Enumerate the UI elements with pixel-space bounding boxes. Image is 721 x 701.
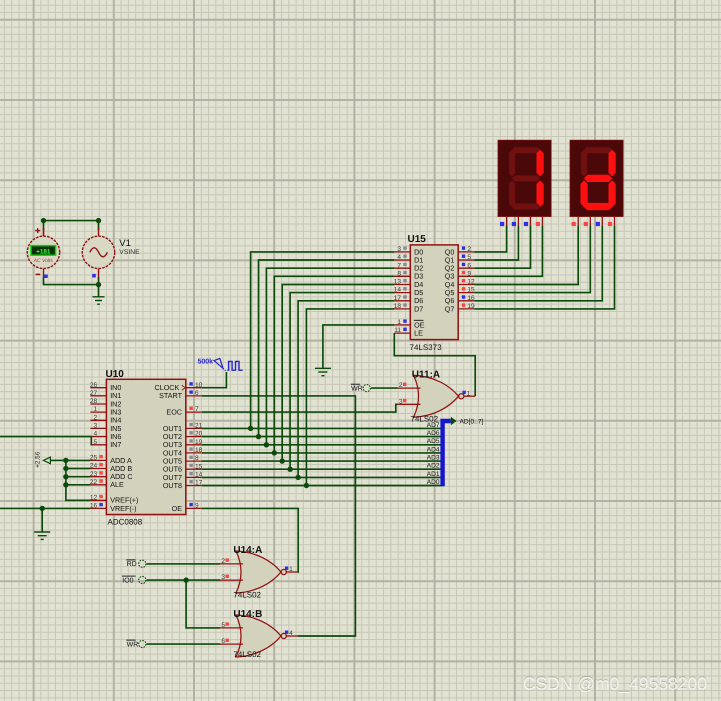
svg-text:25: 25 bbox=[90, 455, 98, 462]
U15 pin Q2 (pin 6) bbox=[458, 267, 474, 269]
wire OUT2 to bus (AD6) bbox=[202, 436, 443, 438]
svg-text:U10: U10 bbox=[106, 369, 125, 380]
svg-text:74LS02: 74LS02 bbox=[233, 590, 261, 599]
svg-text:20: 20 bbox=[195, 431, 203, 438]
DISP2 pin 4 bbox=[614, 216, 616, 225]
wire OUT6 to bus (AD2) bbox=[202, 468, 443, 470]
svg-text:AD6: AD6 bbox=[427, 430, 440, 437]
U10 pin OUT5 (pin 8) bbox=[186, 460, 202, 462]
svg-text:16: 16 bbox=[467, 295, 475, 302]
wire WR to U11:A in2 bbox=[371, 387, 398, 389]
svg-text:3: 3 bbox=[397, 246, 401, 253]
svg-text:IN7: IN7 bbox=[110, 440, 121, 449]
svg-text:AD[0..7]: AD[0..7] bbox=[460, 419, 484, 426]
svg-text:OE: OE bbox=[172, 504, 183, 513]
svg-text:9: 9 bbox=[195, 503, 199, 510]
svg-text:19: 19 bbox=[467, 303, 475, 310]
wire OUT1 to bus (AD7) bbox=[202, 427, 443, 429]
wire D1 riser to OUT2 bbox=[259, 260, 395, 437]
svg-text:5: 5 bbox=[94, 439, 98, 446]
wire bottom loop bbox=[44, 277, 99, 285]
svg-text:D7: D7 bbox=[414, 304, 423, 313]
node rail junction bbox=[63, 458, 68, 463]
svg-text:3: 3 bbox=[221, 574, 225, 581]
wire Q6 to display pin bbox=[474, 225, 602, 301]
wire Q2 to display pin bbox=[474, 225, 530, 268]
U10 pin OE (pin 9) bbox=[186, 507, 202, 509]
terminal WR (bottom) bbox=[126, 640, 146, 648]
svg-text:10: 10 bbox=[195, 382, 203, 389]
svg-text:U14:B: U14:B bbox=[233, 609, 262, 620]
svg-text:U15: U15 bbox=[408, 234, 427, 245]
U15 pin Q5 (pin 15) bbox=[458, 292, 474, 294]
U15 pin LE (pin 11) bbox=[394, 332, 410, 334]
ground (V1) bbox=[93, 297, 105, 304]
node IO0 branch bbox=[183, 577, 188, 582]
node V1 bottom junction bbox=[96, 282, 101, 287]
svg-text:AC Volts: AC Volts bbox=[33, 258, 54, 264]
U10 pin IN1 (pin 27) bbox=[90, 395, 106, 397]
svg-text:17: 17 bbox=[394, 295, 402, 302]
svg-text:2: 2 bbox=[94, 414, 98, 421]
source V1 VSINE bbox=[82, 236, 114, 268]
U15 pin Q7 (pin 19) bbox=[458, 308, 474, 310]
svg-text:3: 3 bbox=[94, 423, 98, 430]
wire rail to ADD B bbox=[66, 468, 91, 470]
wire down to ground bbox=[41, 508, 43, 531]
U10 pin IN4 (pin 2) bbox=[90, 419, 106, 421]
svg-text:1: 1 bbox=[397, 319, 401, 326]
svg-text:13: 13 bbox=[394, 279, 402, 286]
svg-text:24: 24 bbox=[90, 463, 98, 470]
svg-text:6: 6 bbox=[221, 638, 225, 645]
wire EOC to U11:A in3 bbox=[202, 404, 398, 412]
svg-text:18: 18 bbox=[394, 303, 402, 310]
wire START to U14:B output bbox=[202, 396, 356, 636]
svg-text:1: 1 bbox=[289, 566, 293, 573]
U10 pin OUT6 (pin 15) bbox=[186, 468, 202, 470]
svg-text:6: 6 bbox=[467, 262, 471, 269]
U15 pin Q3 (pin 9) bbox=[458, 275, 474, 277]
wire OUT7 to bus (AD1) bbox=[202, 476, 443, 478]
node riser D7/OUT8 bbox=[304, 483, 309, 488]
svg-text:14: 14 bbox=[394, 287, 402, 294]
node VREF(-) ground tap bbox=[40, 506, 45, 511]
U10 pin OUT3 (pin 19) bbox=[186, 444, 202, 446]
wire OUT3 to bus (AD5) bbox=[202, 444, 443, 446]
U10 pin OUT2 (pin 20) bbox=[186, 436, 202, 438]
U15 pin D3 (pin 8) bbox=[394, 275, 410, 277]
svg-text:2: 2 bbox=[467, 246, 471, 253]
svg-text:VSINE: VSINE bbox=[119, 249, 140, 256]
svg-text:5: 5 bbox=[467, 254, 471, 261]
U10 pin ALE (pin 22) bbox=[90, 484, 106, 486]
svg-text:8: 8 bbox=[397, 270, 401, 277]
wire Q4 to display pin bbox=[474, 225, 578, 284]
svg-text:11: 11 bbox=[394, 327, 401, 334]
node V1 top corner bbox=[96, 218, 101, 223]
svg-text:ADC0808: ADC0808 bbox=[108, 518, 143, 527]
wire D4 riser to OUT5 bbox=[282, 285, 394, 462]
U10 pin IN0 (pin 26) bbox=[90, 387, 106, 389]
wire IO0 branch to U14:B in5 bbox=[186, 580, 220, 628]
nor gate U14:A 74LS02 bbox=[220, 545, 298, 600]
svg-text:CSDN @m0_49558200: CSDN @m0_49558200 bbox=[523, 673, 707, 693]
ADC U10 ADC0808 bbox=[90, 369, 203, 527]
svg-text:U11:A: U11:A bbox=[412, 370, 440, 381]
svg-text:AD5: AD5 bbox=[427, 438, 440, 445]
wire Q0 to display pin bbox=[474, 225, 506, 252]
U10 pin START (pin 6) bbox=[186, 395, 202, 397]
U10 pin IN3 (pin 1) bbox=[90, 411, 106, 413]
node rail junction bbox=[63, 474, 68, 479]
wire D2 riser to OUT3 bbox=[266, 268, 394, 445]
svg-text:15: 15 bbox=[195, 463, 203, 470]
U10 pin IN6 (pin 4) bbox=[90, 436, 106, 438]
wire IO0 to U14:A in3 bbox=[146, 579, 220, 581]
wire D0 riser to OUT1 bbox=[251, 252, 395, 429]
DISP2 pin 1 bbox=[577, 216, 579, 225]
wire VREF(-) rail bbox=[0, 507, 90, 509]
svg-text:23: 23 bbox=[90, 471, 98, 478]
U10 pin ADD C (pin 23) bbox=[90, 476, 106, 478]
U15 pin D5 (pin 14) bbox=[394, 292, 410, 294]
svg-text:RD: RD bbox=[127, 561, 137, 568]
svg-text:4: 4 bbox=[397, 254, 401, 261]
svg-text:7: 7 bbox=[397, 262, 401, 269]
svg-text:16: 16 bbox=[90, 503, 98, 510]
wire U15 LE bbox=[393, 332, 395, 334]
svg-text:27: 27 bbox=[90, 390, 98, 397]
U15 pin OE (pin 1) bbox=[394, 324, 410, 326]
wire Q3 to display pin bbox=[474, 225, 542, 276]
wire U15 OE to ground bbox=[323, 325, 394, 368]
DISP2 pin 3 bbox=[601, 216, 603, 225]
wire OUT5 to bus (AD3) bbox=[202, 460, 443, 462]
U15 pin D2 (pin 7) bbox=[394, 267, 410, 269]
wire top loop between voltmeter and V1 bbox=[44, 221, 99, 230]
terminal WR (top) bbox=[351, 384, 371, 392]
U10 pin ADD A (pin 25) bbox=[90, 459, 106, 461]
svg-text:AD3: AD3 bbox=[427, 455, 440, 462]
svg-text:START: START bbox=[159, 391, 183, 400]
svg-text:3: 3 bbox=[399, 398, 403, 405]
svg-text:+181: +181 bbox=[36, 248, 51, 255]
wire WR to U14:B in6 bbox=[146, 643, 220, 645]
U10 pin IN5 (pin 3) bbox=[90, 427, 106, 429]
wire voltmeter + stub bbox=[43, 228, 45, 235]
svg-text:IO0: IO0 bbox=[122, 577, 133, 584]
wire D7 riser to OUT8 bbox=[306, 309, 394, 486]
svg-text:74LS02: 74LS02 bbox=[233, 650, 261, 659]
node riser D3/OUT4 bbox=[272, 450, 277, 455]
node rail junction bbox=[63, 482, 68, 487]
wire Q7 to display pin bbox=[474, 225, 614, 309]
node riser D4/OUT5 bbox=[280, 458, 285, 463]
svg-text:1: 1 bbox=[94, 406, 98, 413]
probe marker voltmeter bbox=[44, 274, 48, 278]
node riser D1/OUT2 bbox=[256, 434, 261, 439]
node rail junction bbox=[63, 466, 68, 471]
svg-text:18: 18 bbox=[195, 447, 203, 454]
node riser D5/OUT6 bbox=[287, 467, 292, 472]
svg-text:2: 2 bbox=[221, 558, 225, 565]
wire D6 riser to OUT7 bbox=[298, 301, 394, 478]
7-segment display DISP1 bbox=[498, 140, 551, 226]
U10 pin ADD B (pin 24) bbox=[90, 468, 106, 470]
U15 pin Q0 (pin 2) bbox=[458, 251, 474, 253]
wire OUT8 to bus (AD0) bbox=[202, 485, 443, 487]
svg-text:LE: LE bbox=[414, 329, 423, 338]
svg-text:500k: 500k bbox=[198, 357, 214, 365]
svg-text:12: 12 bbox=[90, 494, 98, 501]
terminal RD bbox=[126, 560, 146, 568]
U10 pin OUT1 (pin 21) bbox=[186, 427, 202, 429]
DISP1 pin 4 bbox=[541, 216, 543, 225]
svg-text:7: 7 bbox=[195, 406, 199, 413]
U15 pin D6 (pin 17) bbox=[394, 300, 410, 302]
svg-text:V1: V1 bbox=[119, 238, 131, 249]
svg-text:OUT8: OUT8 bbox=[163, 481, 182, 490]
svg-text:AD1: AD1 bbox=[427, 471, 440, 478]
svg-text:22: 22 bbox=[90, 479, 98, 486]
U15 pin Q4 (pin 12) bbox=[458, 284, 474, 286]
nor gate U14:B 74LS02 bbox=[220, 609, 298, 659]
svg-text:AD2: AD2 bbox=[427, 463, 440, 470]
U10 pin VREF(-) (pin 16) bbox=[90, 507, 106, 509]
svg-text:19: 19 bbox=[195, 439, 203, 446]
latch U15 74LS373 bbox=[394, 234, 475, 352]
svg-text:5: 5 bbox=[221, 622, 225, 629]
wire rail to ADD C bbox=[66, 476, 91, 478]
7-segment display DISP2 bbox=[570, 140, 623, 226]
svg-text:AD0: AD0 bbox=[427, 479, 440, 486]
DISP2 pin 2 bbox=[589, 216, 591, 225]
probe marker V1 bbox=[92, 274, 96, 278]
wire rail down to VREF(+) bbox=[66, 460, 91, 500]
node riser D2/OUT3 bbox=[264, 442, 269, 447]
svg-text:9: 9 bbox=[467, 270, 471, 277]
wire OUT4 to bus (AD4) bbox=[202, 452, 443, 454]
DISP1 pin 3 bbox=[530, 216, 532, 225]
U15 pin D1 (pin 4) bbox=[394, 259, 410, 261]
svg-text:WR: WR bbox=[351, 386, 363, 393]
wire rail to ALE bbox=[66, 484, 91, 486]
svg-text:15: 15 bbox=[467, 287, 475, 294]
wire V1 top stub bbox=[98, 228, 100, 235]
svg-text:28: 28 bbox=[90, 398, 98, 405]
U15 pin Q1 (pin 5) bbox=[458, 259, 474, 261]
svg-text:14: 14 bbox=[195, 472, 203, 479]
svg-text:21: 21 bbox=[195, 423, 203, 430]
power rail +2.56V to ADD A/B/C, ALE, VREF(+) bbox=[50, 459, 66, 461]
wire U14:A output to ADC OE bbox=[202, 508, 298, 572]
svg-text:12: 12 bbox=[467, 279, 475, 286]
wire D5 riser to OUT6 bbox=[290, 293, 394, 470]
wire input signal to IN7 bbox=[0, 437, 91, 445]
U10 pin EOC (pin 7) bbox=[186, 411, 202, 413]
wire LE to U11:A output bbox=[394, 333, 475, 396]
svg-text:26: 26 bbox=[90, 382, 98, 389]
bus AD[0..7] bbox=[443, 417, 457, 487]
wire Q1 to display pin bbox=[474, 225, 518, 260]
svg-text:ALE: ALE bbox=[110, 480, 124, 489]
wire D3 riser to OUT4 bbox=[274, 276, 394, 453]
U15 pin D4 (pin 13) bbox=[394, 284, 410, 286]
svg-text:6: 6 bbox=[195, 390, 199, 397]
svg-text:VREF(-): VREF(-) bbox=[110, 504, 136, 513]
svg-text:Q7: Q7 bbox=[445, 304, 455, 313]
U10 pin OUT7 (pin 14) bbox=[186, 476, 202, 478]
ground (VREF-) bbox=[34, 532, 50, 539]
wire RD to U14:A in2 bbox=[146, 563, 220, 565]
svg-text:EOC: EOC bbox=[166, 408, 182, 417]
svg-text:2: 2 bbox=[399, 382, 403, 389]
wire V1 to ground bbox=[98, 277, 100, 297]
wire voltmeter - lead bbox=[43, 269, 45, 277]
voltmeter (AC Volts) bbox=[27, 236, 59, 268]
U15 pin D0 (pin 3) bbox=[394, 251, 410, 253]
wire V1 bottom stub bbox=[98, 269, 100, 277]
svg-text:1: 1 bbox=[467, 390, 471, 397]
wire rail to ADD A bbox=[66, 459, 91, 461]
U10 pin OUT4 (pin 18) bbox=[186, 452, 202, 454]
svg-text:U14:A: U14:A bbox=[233, 545, 262, 556]
svg-text:74LS373: 74LS373 bbox=[410, 343, 443, 352]
terminal IO0 bbox=[122, 576, 146, 584]
U10 pin CLOCK (pin 10) bbox=[186, 387, 202, 389]
clock generator 500k bbox=[198, 357, 243, 372]
ground (U15 OE) bbox=[315, 368, 331, 375]
svg-text:4: 4 bbox=[94, 431, 98, 438]
U10 pin VREF(+) (pin 12) bbox=[90, 499, 106, 501]
U10 pin IN2 (pin 28) bbox=[90, 403, 106, 405]
svg-text:8: 8 bbox=[195, 455, 199, 462]
nor gate U11:A 74LS02 bbox=[398, 370, 476, 424]
wire CLOCK to generator bbox=[202, 372, 227, 388]
wire Q5 to display pin bbox=[474, 225, 590, 292]
svg-text:WR: WR bbox=[127, 641, 139, 648]
node riser D6/OUT7 bbox=[295, 475, 300, 480]
svg-text:+2.56: +2.56 bbox=[35, 451, 42, 468]
svg-text:AD4: AD4 bbox=[427, 446, 440, 453]
svg-text:74LS02: 74LS02 bbox=[411, 414, 439, 423]
U10 pin IN7 (pin 5) bbox=[90, 444, 106, 446]
svg-text:4: 4 bbox=[289, 630, 293, 637]
node riser D0/OUT1 bbox=[248, 426, 253, 431]
DISP1 pin 1 bbox=[506, 216, 508, 225]
svg-text:17: 17 bbox=[195, 480, 203, 487]
U15 pin D7 (pin 18) bbox=[394, 308, 410, 310]
U10 pin OUT8 (pin 17) bbox=[186, 485, 202, 487]
node voltmeter top corner bbox=[41, 218, 46, 223]
DISP1 pin 2 bbox=[517, 216, 519, 225]
U15 pin Q6 (pin 16) bbox=[458, 300, 474, 302]
